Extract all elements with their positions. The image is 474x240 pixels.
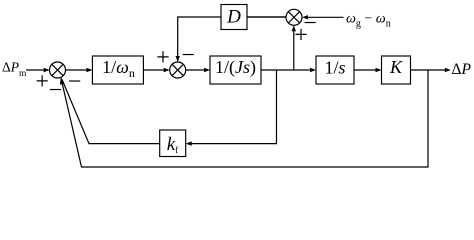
svg-text:−: −: [68, 69, 82, 95]
svg-text:−: −: [181, 43, 195, 69]
svg-text:−: −: [303, 11, 317, 37]
svg-text:+: +: [35, 69, 49, 95]
svg-text:+: +: [156, 45, 170, 71]
svg-text:D: D: [226, 7, 241, 28]
svg-text:−: −: [49, 78, 63, 104]
svg-text:1/s: 1/s: [324, 57, 345, 77]
svg-text:1/(Js): 1/(Js): [215, 57, 256, 78]
svg-text:K: K: [389, 57, 403, 77]
svg-text:ΔP: ΔP: [452, 61, 472, 78]
